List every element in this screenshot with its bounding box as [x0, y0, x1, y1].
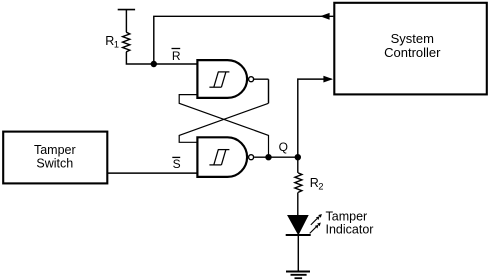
junction dot R-bar node — [151, 61, 157, 67]
wire U1 output to cross-coupling — [254, 79, 269, 103]
resistor R2 — [295, 157, 302, 215]
wire R1 bottom to R-bar node — [126, 52, 197, 64]
resistor R1 — [123, 32, 130, 52]
junction dot Q — [265, 154, 271, 160]
svg-text:Switch: Switch — [36, 156, 73, 170]
svg-text:Controller: Controller — [384, 45, 441, 60]
arrowhead pointing right into controller — [323, 76, 333, 83]
wire Tamper Switch to S-bar input — [108, 172, 197, 174]
output bubble U1 — [249, 77, 254, 82]
System Controller box — [334, 3, 487, 95]
arrowhead pointing left (from controller to R-bar) — [320, 13, 330, 20]
svg-text:Q: Q — [279, 140, 288, 154]
wire Q to system controller — [298, 79, 332, 157]
svg-text:Tamper: Tamper — [326, 210, 368, 224]
Tamper Switch box — [3, 132, 107, 184]
svg-text:System: System — [391, 31, 434, 46]
wire node to system controller (feedback line) — [154, 16, 334, 64]
svg-text:2: 2 — [318, 182, 323, 192]
label S-bar — [172, 157, 180, 171]
hysteresis symbol U1 — [209, 72, 229, 87]
svg-text:Tamper: Tamper — [34, 143, 76, 157]
label R1 — [105, 34, 119, 50]
svg-text:R: R — [172, 49, 181, 63]
label R2 — [310, 176, 324, 192]
LED light emission arrows — [310, 214, 322, 233]
NAND gate U1 (top, Schmitt-trigger) body — [197, 60, 247, 98]
hysteresis symbol U2 — [209, 150, 229, 165]
ground — [286, 272, 310, 279]
junction dot Q to R2/controller — [295, 154, 301, 160]
label Tamper Indicator — [326, 210, 374, 237]
svg-text:S: S — [173, 157, 181, 171]
output bubble U2 — [249, 155, 254, 160]
svg-text:Indicator: Indicator — [326, 223, 374, 237]
wire cross diagonal (U1 out to U2 input) — [179, 103, 268, 142]
wire U2 output Q net — [254, 156, 298, 158]
label R-bar — [172, 49, 181, 63]
wire cross diagonal (Q to U1 input) — [179, 95, 268, 158]
LED D1 (tamper indicator) — [286, 216, 311, 272]
power supply bar — [118, 10, 135, 33]
svg-text:1: 1 — [114, 39, 119, 49]
NAND gate U2 (bottom, Schmitt-trigger) body — [197, 137, 247, 177]
